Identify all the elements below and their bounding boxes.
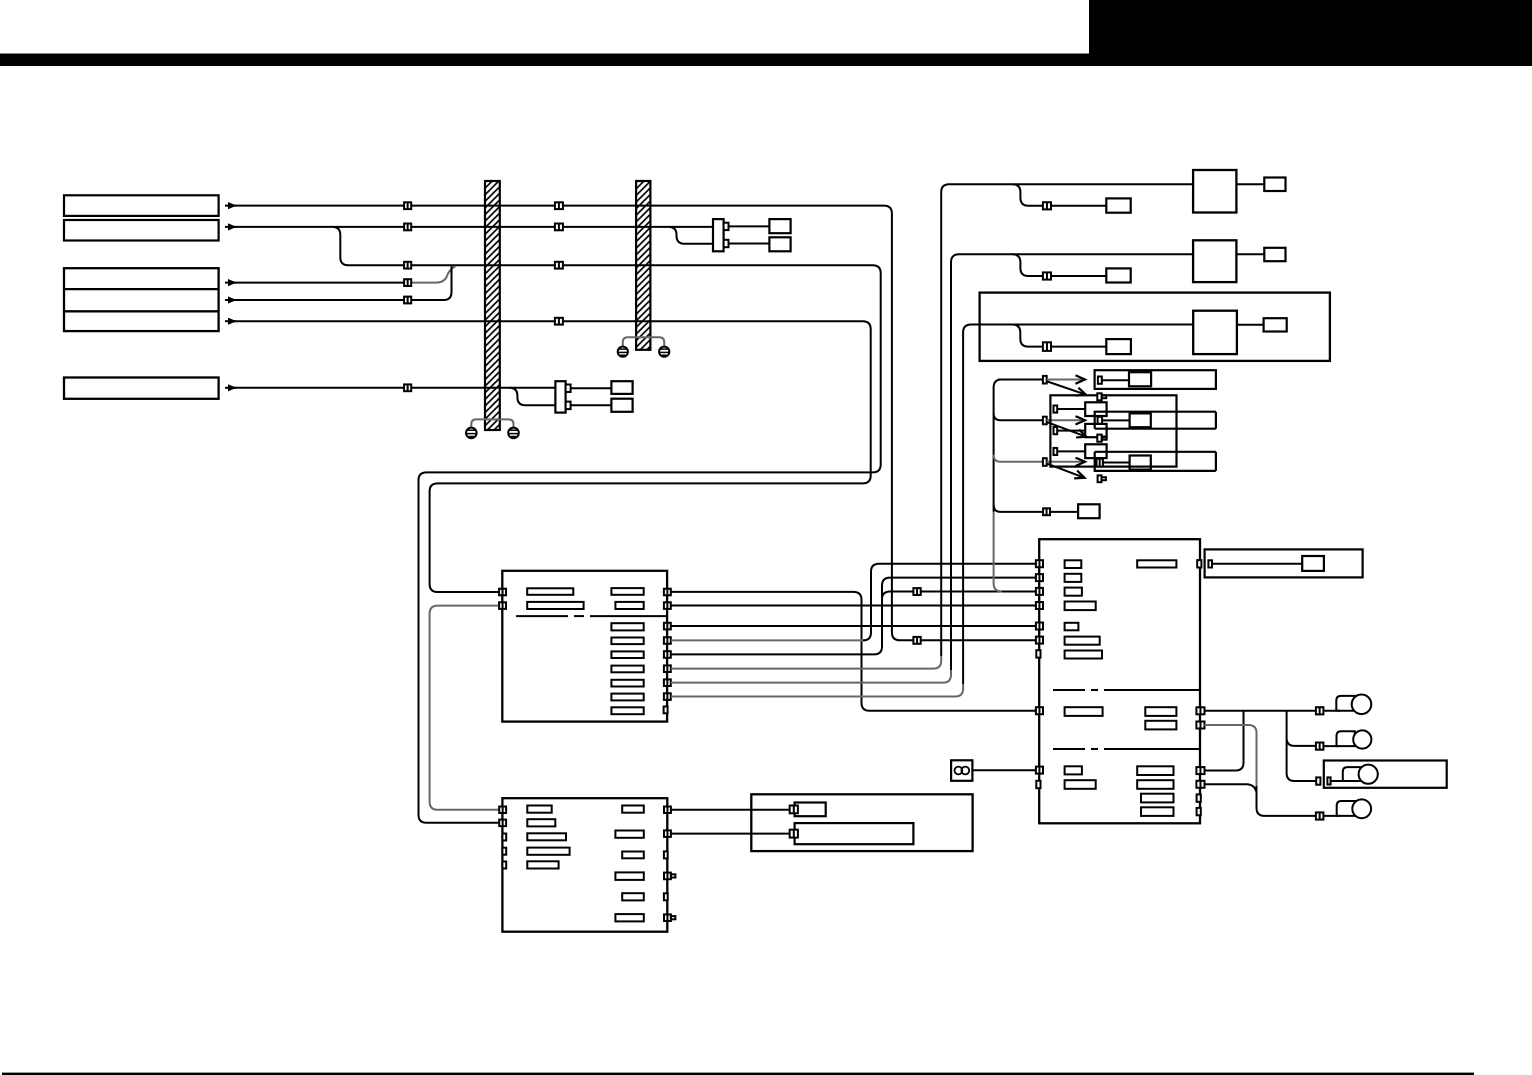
control unit block U3 outline <box>1039 539 1200 823</box>
bulkhead grommet bar 2 (hatched) <box>636 181 650 350</box>
U2 left pin 1 <box>499 807 506 814</box>
U3 label a4 <box>1065 602 1096 611</box>
antenna b1 radio arrow horizontal (grey shaft) <box>1047 379 1085 381</box>
wire W6 (B6 to twin connector 2) <box>234 387 555 389</box>
U1 right pin 8 <box>664 693 671 700</box>
twin connector C2 pin b <box>566 402 571 410</box>
top side band next to U3 <box>1205 549 1363 577</box>
row2 drop wire <box>951 254 1193 670</box>
U2 left pin 3 (unused) <box>502 834 506 841</box>
band1 inner box <box>1129 372 1151 386</box>
row2 main unit box <box>1193 240 1236 282</box>
antenna b2 radio arrow diagonal <box>1048 422 1087 437</box>
ground G2 <box>508 428 519 439</box>
row2 wire unit to end box <box>1236 253 1264 255</box>
U3 left pin 8 <box>1036 707 1043 714</box>
U2 label rect L4 <box>527 848 569 855</box>
twin connector C2 pin a <box>566 385 571 393</box>
U3 bottom label b1 <box>1065 766 1082 774</box>
ground lead under bar 2 (grey) <box>623 337 664 346</box>
U2 right pin 2 <box>664 830 671 837</box>
row3 branch wire to connector and box <box>1012 325 1106 347</box>
U3 bottom label b2 <box>1065 780 1096 789</box>
antenna trunk upper (black) <box>994 380 1002 512</box>
wire U2 pin2 to amp box <box>671 833 790 835</box>
row2 branch wire to connector and box <box>1012 254 1106 276</box>
wire W4a merge curve (grey) <box>411 266 455 282</box>
U2 right pin 6 with stub <box>664 914 675 921</box>
twin connector C1 body <box>713 219 724 251</box>
speaker4 feed (grey from U3 right pin2) <box>1205 725 1257 787</box>
U2 left pin 2 <box>499 820 506 827</box>
receiver wide band 1 <box>1095 370 1216 389</box>
connector J9 on W3 col2 <box>555 262 563 269</box>
U3 bottom right rect 1 <box>1137 766 1173 775</box>
U1 label rect L1 <box>527 588 573 595</box>
U2 right pin 3 (unused) <box>664 851 668 858</box>
wire C1 pin a to box <box>729 225 770 227</box>
band2 wire to box <box>1102 419 1130 421</box>
U3 label a6 <box>1065 637 1100 645</box>
antenna trunk lower (grey) <box>994 512 1002 592</box>
amp inner small box <box>795 803 826 817</box>
speaker4 feed lower drop <box>1257 786 1316 816</box>
row3 wire unit to end box <box>1237 324 1264 326</box>
row1 wire unit to end box <box>1236 183 1264 185</box>
U1 right pin 7 <box>664 679 671 686</box>
U1 label rect R3 <box>611 623 643 630</box>
receiver bottom pin with stub <box>1098 475 1106 482</box>
arrow into wire W4 <box>225 299 236 301</box>
connector J2 on W2 <box>404 224 411 231</box>
wire W1 (B1 to connector joint then down right column to control unit pin) <box>234 206 1036 641</box>
connector J12 on pin 640 wire <box>913 637 920 644</box>
wire W4b (B4 row) <box>234 266 452 300</box>
U3 top right label <box>1137 560 1176 567</box>
wire U1 pin2 straight across <box>671 605 1036 607</box>
wire W2 (B2 to twin connector) <box>234 226 713 228</box>
U2 label rect L2 <box>527 819 555 826</box>
wire C2 pin b to box <box>571 404 612 406</box>
band2 pin <box>1098 417 1103 424</box>
antenna b1 radio arrow diagonal <box>1048 382 1087 395</box>
U2 label rect R3 <box>622 852 644 859</box>
U2 label rect R5 <box>622 893 644 900</box>
antenna b4 terminal box <box>1078 504 1100 518</box>
twin connector C1 pin b <box>724 240 729 247</box>
block2 CD changer U2 outline <box>502 798 667 932</box>
U3 right pin 2 <box>1196 722 1204 729</box>
U3 left pin 3 <box>1036 588 1043 595</box>
connector J11 on pin3 wire <box>913 588 920 595</box>
speaker4 feed merge from U3 right pin4 <box>1205 784 1257 791</box>
U3 left pin 6 <box>1036 637 1043 644</box>
wire b4 to box <box>1050 511 1078 513</box>
U1 left pin 2 <box>499 602 506 609</box>
arrow into wire W6 <box>225 387 236 389</box>
U2 right pin 5 (unused) <box>664 893 668 900</box>
row3 drop wire <box>963 325 1193 685</box>
wire U1 pin1 to control unit lower pin <box>671 592 1036 711</box>
wire U1 pin4 (grey) up to control unit pin 1 <box>671 639 866 641</box>
U1 label rect R6 <box>611 666 643 673</box>
speaker feed return (U3 right pin3 riser) <box>1205 711 1244 771</box>
wire U1 pin5 riser to control unit pins 2,3 <box>671 578 1036 655</box>
U1 label rect R8 <box>611 694 643 701</box>
wire U2 pin1 to amp box <box>671 809 790 811</box>
page header black title block <box>1089 0 1532 66</box>
ground lead under bar 1 (grey) <box>471 419 513 427</box>
wire left pin2 to relay box 2 <box>1057 430 1085 432</box>
side band pin <box>1208 560 1212 567</box>
U1 right pin 1 <box>664 589 671 596</box>
amp inner pin a <box>790 806 798 814</box>
wire U1 pin3 straight across <box>671 625 1036 627</box>
U2 label rect L5 <box>527 861 558 868</box>
wire W6 branch to lower contact <box>509 388 555 405</box>
speaker1 connector <box>1316 707 1324 714</box>
U2 label rect R4 <box>615 872 643 880</box>
row3 main unit box <box>1193 311 1237 354</box>
arrow into wire W1 <box>225 205 236 207</box>
wire W2 branch to lower contact <box>669 227 714 244</box>
amp inner pin b <box>790 830 798 838</box>
U3 bottom right rect 4 <box>1141 807 1174 816</box>
antenna b2 connector <box>1043 417 1047 425</box>
antenna b3 radio arrow diagonal <box>1048 464 1085 478</box>
U2 left pin 4 (unused) <box>502 848 506 855</box>
speaker SP4 <box>1337 799 1371 818</box>
receiver wide band 3 <box>1095 452 1216 471</box>
terminal box C1a <box>769 219 790 233</box>
U2 label rect R6 <box>615 914 643 921</box>
speaker3 enclosure band <box>1324 761 1447 788</box>
row3 enclosure rect <box>980 293 1330 361</box>
wire C2 pin a to box <box>571 387 612 389</box>
U1 right pin 4 <box>664 637 671 644</box>
ground G4 <box>659 347 669 357</box>
U3 mid right rect 2 <box>1145 721 1176 730</box>
antenna b3 connector <box>1043 458 1047 466</box>
U3 left pin 9 <box>1036 767 1043 774</box>
row1 branch terminal box <box>1106 198 1130 212</box>
speaker1 lead <box>1323 710 1340 712</box>
wire U1 pin4 riser <box>863 564 1036 641</box>
U3 left pin 1 <box>1036 560 1043 567</box>
row1 connector <box>1043 202 1051 209</box>
wire W7 (audio unit left pin 2 to block2 pin 1, grey) <box>430 606 500 810</box>
antenna branch b2 feed <box>994 413 1043 420</box>
U1 label rect R7 <box>611 680 643 687</box>
relay box RB2 <box>1085 424 1106 437</box>
wire W3 harness trunk (branch of W2 down to y265 then to block2) <box>332 227 880 823</box>
relay box RB3 <box>1085 444 1106 458</box>
amp unit box outline <box>751 794 972 851</box>
U1 label rect R1 <box>611 588 643 595</box>
U1 right pin 9 (unused) <box>664 707 668 714</box>
U3 bottom right rect 2 <box>1137 780 1173 789</box>
antenna branch b4 feed <box>994 505 1044 512</box>
U2 label rect L3 <box>527 833 566 840</box>
U1 label rect R5 <box>611 651 643 658</box>
speaker SP2 <box>1337 730 1372 748</box>
noise condenser coil symbol <box>955 767 970 775</box>
antenna branch b1 feed <box>998 379 1043 381</box>
amp inner long box <box>795 823 914 844</box>
wire C1 pin b to box <box>729 243 770 245</box>
U1 internal divider (dash-dot) <box>516 615 667 617</box>
wire U1 pin8 (grey) <box>671 683 963 697</box>
speaker feed wire main (U3 right pin1 to speaker 1) <box>1205 710 1316 712</box>
terminal box C2b <box>611 399 632 412</box>
U3 label a2 <box>1065 574 1082 582</box>
U3 right pin 3 <box>1196 767 1204 774</box>
U2 right pin 1 <box>664 807 671 814</box>
connector J7 on W1 col2 <box>555 202 563 209</box>
wire W5 (B5 row to audio unit left pin 1) <box>234 321 871 592</box>
relay box RB1 <box>1085 402 1106 416</box>
speaker2 lead <box>1323 745 1340 747</box>
wire U1 pin6 (grey) <box>671 655 941 669</box>
U1 right pin 2 <box>664 602 671 609</box>
U3 label a3 <box>1065 588 1082 596</box>
row1 drop wire <box>941 184 1193 656</box>
row3 connector <box>1043 342 1051 351</box>
U3 right edge pin top (unused) <box>1197 560 1201 567</box>
connector J1 on W1 <box>404 202 411 209</box>
U3 right pin 5 (unused) <box>1197 794 1201 801</box>
connector J3 on W3 <box>404 262 411 269</box>
U3 left pin 5 <box>1036 623 1043 630</box>
antenna b4 connector <box>1043 508 1050 515</box>
U1 right pin 3 <box>664 623 671 630</box>
U3 label a1 <box>1065 560 1082 568</box>
U3 mid label <box>1065 707 1103 716</box>
U1 right pin 6 <box>664 665 671 672</box>
row1 main unit box <box>1193 170 1236 213</box>
label box B2 <box>64 220 219 241</box>
wire branch to pin3 connector <box>882 592 1036 600</box>
U3 label a5 <box>1065 623 1079 631</box>
wire W4a (B3 row) <box>234 282 404 284</box>
speaker3 inner pin <box>1327 777 1330 784</box>
U3 bottom right rect 3 <box>1141 794 1174 803</box>
U1 label rect R4 <box>611 638 643 645</box>
label box B1 (top left) <box>64 195 219 216</box>
band1 pin <box>1098 377 1102 384</box>
page bottom rule <box>2 1073 1474 1075</box>
row2 branch terminal box <box>1106 268 1130 282</box>
speaker2 connector <box>1316 743 1324 750</box>
row1 end box <box>1264 178 1285 192</box>
U1 label rect L2 <box>527 602 583 609</box>
band1 wire to box <box>1102 379 1129 381</box>
row2 connector <box>1043 272 1051 279</box>
U3 right pin 6 (unused) <box>1197 808 1201 815</box>
U2 label rect R2 <box>615 831 643 838</box>
label box B6 <box>64 378 219 399</box>
row3 branch terminal box <box>1106 339 1131 354</box>
page header rule bar <box>0 54 1532 67</box>
band3 wire to box <box>1103 462 1130 464</box>
speaker SP1 <box>1336 695 1371 715</box>
connector J10 on W5 col2 <box>555 318 563 325</box>
receiver mid pin with stub <box>1097 435 1106 442</box>
speaker4 lead <box>1323 815 1340 817</box>
speaker3 lead <box>1331 780 1346 782</box>
U3 mid right rect 1 <box>1145 707 1176 716</box>
U3 right pin 4 <box>1196 781 1204 788</box>
receiver top pin with stub <box>1097 393 1106 400</box>
speaker SP3 <box>1343 765 1378 784</box>
connector J5 on W4b <box>404 297 411 304</box>
wire condenser to control unit pin <box>972 769 1036 771</box>
row1 branch wire to connector and box <box>1012 184 1106 206</box>
side band inner box <box>1302 556 1324 571</box>
label box group B3-B5 <box>64 268 219 331</box>
antenna branch b3 feed (grey) <box>994 455 1043 462</box>
speaker3 connector <box>1316 777 1320 784</box>
terminal box C2a <box>611 381 632 394</box>
row2 end box <box>1264 248 1285 261</box>
wire left pin3 to relay box 3 <box>1057 450 1085 452</box>
U2 label rect L1 <box>527 806 551 813</box>
receiver wide band 2 <box>1095 412 1216 429</box>
ground G3 <box>618 347 628 357</box>
wire U1 pin7 (grey) <box>671 669 951 683</box>
ground G1 <box>466 428 477 439</box>
receiver left pin 1 <box>1054 406 1058 413</box>
U3 left pin 4 <box>1036 602 1043 609</box>
twin connector C2 body <box>555 381 565 412</box>
receiver left pin 2 <box>1054 427 1058 434</box>
U1 label rect R9 <box>611 707 643 714</box>
antenna b3 radio arrow horizontal (grey shaft) <box>1047 461 1085 463</box>
twin connector C1 pin a <box>724 223 729 230</box>
receiver left pin 3 <box>1054 448 1058 455</box>
arrow into wire W5 <box>225 320 236 322</box>
band3 pin <box>1097 459 1103 467</box>
terminal box C1b <box>769 237 790 251</box>
wire left pin1 to relay box 1 <box>1057 408 1085 410</box>
antenna b2 radio arrow horizontal (grey shaft) <box>1047 419 1085 421</box>
speaker4 connector <box>1316 812 1324 819</box>
receiver main rect <box>1050 395 1176 466</box>
connector J6 on W6 <box>404 384 411 391</box>
arrow into wire W3 <box>225 282 236 284</box>
U3 left pin 10 (unused) <box>1036 781 1040 788</box>
U1 label rect R2 <box>615 602 643 609</box>
U3 left pin 2 <box>1036 574 1043 581</box>
U3 divider 2 (dash-dot) <box>1053 748 1200 750</box>
band3 inner box <box>1130 456 1151 470</box>
U2 right pin 4 with stub <box>664 873 675 880</box>
antenna b1 connector <box>1043 376 1047 384</box>
noise condenser box <box>951 760 972 781</box>
band2 inner box <box>1130 413 1151 427</box>
U3 label a7 <box>1065 651 1102 659</box>
side band wire <box>1212 563 1302 565</box>
U1 right pin 5 <box>664 651 671 658</box>
connector J8 on W2 col2 <box>555 224 563 231</box>
arrow into wire W2 <box>225 226 236 228</box>
bulkhead grommet bar 1 (hatched) <box>485 181 500 430</box>
U2 label rect R1 <box>622 806 644 813</box>
audio unit block U1 outline <box>502 571 667 722</box>
speaker branch riser to speakers 2 and 3 <box>1287 711 1317 781</box>
U3 left pin 7 (unused) <box>1036 650 1040 657</box>
U1 left pin 1 <box>499 589 506 596</box>
row3 end box <box>1264 318 1287 331</box>
connector J4 on W4a <box>404 279 411 286</box>
U2 left pin 5 (unused) <box>502 862 506 869</box>
U3 divider 1 (dash-dot) <box>1053 689 1200 691</box>
U3 right pin 1 <box>1196 707 1204 714</box>
